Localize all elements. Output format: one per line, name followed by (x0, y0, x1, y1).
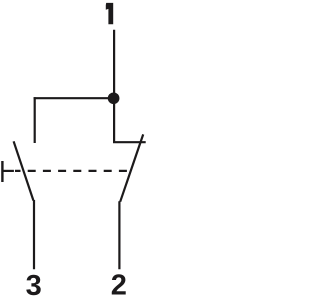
NC contact movable lever (120, 134, 143, 201)
pin label 1 (106, 3, 113, 24)
wire horizontal to NO contact (34, 97, 114, 99)
wire pin3 (33, 200, 35, 269)
NO contact fixed terminal wire (34, 97, 36, 143)
wire pin1 vertical (113, 30, 115, 143)
actuator plunger bar (1, 161, 3, 182)
NO contact movable lever (14, 141, 34, 200)
actuator stroke solid segment (2, 170, 14, 172)
junction dot node 1 (108, 92, 120, 104)
mechanical linkage dashed line (15, 170, 130, 172)
svg-text:3: 3 (26, 270, 42, 300)
wire pin2 (118, 201, 120, 269)
NC contact stop bar (113, 141, 146, 143)
svg-text:2: 2 (111, 269, 127, 300)
